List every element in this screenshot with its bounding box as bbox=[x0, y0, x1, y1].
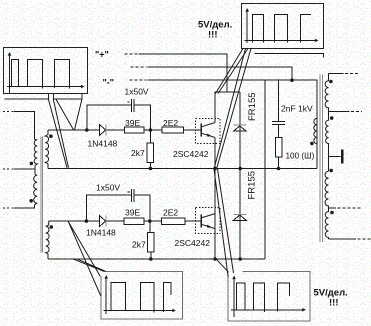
node midpoint dot upper bbox=[213, 167, 217, 171]
transformer T2 primary winding bbox=[34, 175, 37, 205]
transformer T1 secondary winding bbox=[45, 130, 48, 169]
transistor Q1 symbol bbox=[200, 124, 202, 137]
diode FR155 upper branch bbox=[239, 92, 241, 259]
callout tail TR to midpoint bbox=[214, 49, 251, 170]
S1 terminal bbox=[329, 72, 344, 74]
scope BR waveform bbox=[236, 283, 289, 312]
rail lower channel bbox=[48, 258, 265, 260]
S4 bottom terminal bbox=[329, 238, 357, 240]
T3 secondary S4 bbox=[325, 208, 328, 239]
node FR155 lower rail dot bbox=[238, 257, 242, 261]
wire lower channel bbox=[49, 220, 202, 222]
scope box top-left apron bbox=[5, 93, 82, 99]
scope TR waveform bbox=[253, 15, 312, 43]
callout tail BC to lower wire bbox=[68, 222, 101, 296]
svg-text:100 (Ш): 100 (Ш) bbox=[286, 152, 315, 161]
node FR155 rail dot bbox=[238, 167, 242, 171]
capacitor C3 2nF branch bbox=[278, 80, 280, 137]
svg-text:2E2: 2E2 bbox=[163, 208, 178, 218]
T3 secondary S2 bbox=[326, 112, 329, 172]
resistor 2E2 upper bbox=[162, 127, 184, 133]
svg-text:"-": "-" bbox=[103, 78, 115, 88]
node middle bus bbox=[131, 66, 147, 68]
S4 dot bbox=[330, 211, 334, 215]
svg-text:1x50V: 1x50V bbox=[125, 87, 149, 97]
node junction after 39E bbox=[149, 128, 153, 132]
transistor Q2 dashed box bbox=[196, 208, 221, 234]
svg-text:2nF 1kV: 2nF 1kV bbox=[281, 104, 313, 114]
svg-text:1N4148: 1N4148 bbox=[86, 228, 116, 238]
T1 primary dot bbox=[30, 162, 34, 166]
diode D2 FR155 symbol bbox=[233, 215, 246, 220]
ground bbox=[329, 156, 341, 158]
capacitor C2 plates bbox=[132, 189, 134, 202]
callout tail TL to upper wire bbox=[56, 99, 82, 130]
diode D4 1N4148 bbox=[100, 216, 106, 227]
svg-text:!!!: !!! bbox=[208, 30, 218, 41]
scope TL x-axis arrow bbox=[81, 85, 85, 89]
S1-S2 tap terminal bbox=[329, 111, 350, 113]
callout tail BR to midpoint junction bbox=[214, 169, 234, 278]
callout tail TR to collector corner bbox=[216, 49, 249, 94]
scope BR x-axis arrow bbox=[302, 308, 306, 312]
node bus2 drop dot bbox=[290, 78, 294, 82]
scope TR x-axis arrow bbox=[315, 39, 319, 43]
svg-text:2E2: 2E2 bbox=[163, 118, 178, 128]
node junction cap loop 1 bbox=[85, 128, 89, 132]
svg-text:"+": "+" bbox=[95, 50, 109, 60]
svg-text:!!!: !!! bbox=[329, 298, 339, 309]
node 100 ohm rail dot bbox=[277, 167, 281, 171]
scope box top-left bbox=[4, 48, 88, 94]
svg-text:2SC4242: 2SC4242 bbox=[175, 238, 211, 248]
scope TR y-axis arrow bbox=[245, 8, 249, 12]
scope TR x-axis bbox=[245, 40, 318, 42]
transformer T3 primary winding bbox=[314, 118, 317, 143]
svg-text:FR155: FR155 bbox=[247, 92, 258, 121]
wire Q1 collector bbox=[215, 92, 240, 123]
scope TL waveform bbox=[12, 60, 70, 89]
S2 dot bbox=[330, 116, 334, 120]
T2 secondary dot bbox=[50, 225, 54, 229]
capacitor C1 plates bbox=[132, 99, 134, 112]
scope BR x-axis bbox=[231, 309, 304, 311]
svg-text:2k7: 2k7 bbox=[131, 148, 145, 158]
wire minus drop to lower rail bbox=[264, 80, 266, 259]
svg-text:1N4148: 1N4148 bbox=[88, 139, 118, 149]
scope BR y-axis arrow bbox=[232, 276, 236, 280]
transformer T1 primary winding bbox=[34, 139, 37, 165]
resistor 39E upper bbox=[124, 127, 144, 133]
scope TL y-axis bbox=[9, 54, 11, 94]
capacitor C2 loop bbox=[86, 195, 149, 221]
node junction after 39E lower bbox=[148, 219, 152, 223]
node 2k7 lower rail junction bbox=[149, 257, 153, 261]
wire upper channel bbox=[48, 129, 201, 131]
wire "+" bus right segment bbox=[255, 53, 324, 57]
resistor 2k7 upper bbox=[149, 130, 151, 169]
scope box top-right bbox=[242, 4, 324, 49]
svg-text:39E: 39E bbox=[125, 118, 140, 128]
S3-S4 tap terminal bbox=[329, 207, 337, 209]
diode D3 1N4148 bbox=[100, 125, 106, 136]
scope BC waveform bbox=[111, 283, 171, 313]
scope BC y-axis arrow bbox=[104, 275, 108, 279]
diode D1 FR155 symbol bbox=[233, 126, 246, 131]
callout tail TL to upper rail bbox=[48, 99, 68, 168]
scope box bottom-right bbox=[228, 272, 310, 322]
scope TR y-axis bbox=[246, 10, 248, 44]
scope BC y-axis bbox=[105, 277, 107, 315]
node Q2 emitter rail dot bbox=[213, 257, 217, 261]
resistor 39E lower bbox=[124, 218, 144, 224]
T2 primary bottom lead bbox=[14, 205, 35, 209]
wire middle primary bbox=[3, 168, 14, 170]
T1 secondary dot bbox=[49, 134, 53, 138]
transistor Q1 dashed box bbox=[196, 119, 221, 144]
callout tail BC to lower rail bbox=[74, 259, 106, 271]
node "+" bus bbox=[125, 53, 138, 55]
node junction cap loop 2 bbox=[85, 219, 89, 223]
resistor 2k7 lower bbox=[150, 221, 151, 259]
capacitor C1 loop bbox=[87, 105, 151, 130]
svg-text:2SC4242: 2SC4242 bbox=[173, 149, 209, 159]
S1 dot bbox=[329, 80, 333, 84]
callout tail BR corner link bbox=[216, 259, 228, 272]
scope TL y-axis arrow bbox=[8, 52, 12, 56]
svg-text:1x50V: 1x50V bbox=[96, 182, 120, 192]
rail upper channel bbox=[48, 168, 317, 170]
transistor Q2 symbol bbox=[200, 215, 202, 228]
transformer core left bbox=[41, 137, 42, 253]
S3 dot bbox=[329, 169, 333, 173]
scope BC x-axis bbox=[104, 310, 175, 312]
T3 secondary S3 bbox=[325, 171, 328, 208]
wire Q1 emitter / midpoint bbox=[214, 138, 216, 260]
transformer T2 secondary winding bbox=[46, 221, 49, 259]
svg-text:2k7: 2k7 bbox=[132, 240, 146, 250]
scope box bottom-center bbox=[101, 272, 183, 320]
svg-text:39E: 39E bbox=[125, 208, 140, 218]
T2 primary dot bbox=[29, 199, 33, 203]
resistor 2E2 lower bbox=[162, 218, 186, 224]
svg-text:FR155: FR155 bbox=[247, 171, 258, 200]
T3 primary dot bbox=[310, 142, 314, 146]
transformer core right bbox=[320, 75, 322, 243]
scope BC x-axis arrow bbox=[172, 309, 176, 313]
transformer T1 primary top lead bbox=[3, 110, 14, 112]
scope BR y-axis bbox=[233, 277, 235, 317]
node "-" bus bbox=[129, 79, 146, 81]
node 2k7 rail junction bbox=[149, 167, 153, 171]
resistor 100 ohm bbox=[275, 138, 282, 158]
transformer T3 primary feed bbox=[316, 118, 318, 168]
T3 secondary S1 bbox=[325, 73, 328, 111]
scope TL x-axis bbox=[7, 86, 83, 88]
capacitor C3 plates bbox=[272, 122, 285, 125]
